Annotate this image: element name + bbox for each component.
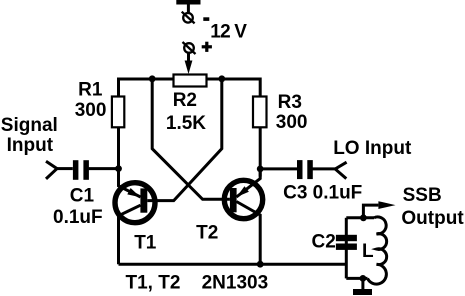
svg-text:300: 300 <box>75 100 107 121</box>
svg-text:C2: C2 <box>312 232 336 253</box>
node C1 junction <box>115 165 122 172</box>
LO input terminal <box>335 162 346 178</box>
node A (rail left junction) <box>149 75 156 82</box>
svg-text:Signal: Signal <box>1 115 58 136</box>
svg-text:C3 0.1uF: C3 0.1uF <box>283 182 362 203</box>
wire C3 node to capacitor <box>260 167 297 170</box>
inductor L <box>368 217 387 284</box>
wire terminal to C1 <box>57 167 73 170</box>
wire C3 to LO terminal <box>312 167 335 170</box>
connector J1 (minus terminal) <box>182 12 195 24</box>
wiper arrow into R2 <box>185 53 193 75</box>
transistor T2 <box>224 169 262 264</box>
potentiometer R2 <box>174 75 207 87</box>
svg-text:T1: T1 <box>134 232 157 253</box>
node tank bottom <box>360 275 367 282</box>
battery terminal bar (negative supply) <box>176 0 200 5</box>
node bottom rail junction <box>257 261 264 268</box>
wire R1 bottom to T1 emitter <box>119 127 141 197</box>
svg-text:2N1303: 2N1303 <box>202 272 269 293</box>
svg-text:R1: R1 <box>78 80 103 101</box>
svg-text:1.5K: 1.5K <box>166 113 206 134</box>
svg-text:T2: T2 <box>196 222 218 243</box>
cross-coupling wire from right rail node to T1 base <box>147 79 222 201</box>
connector J2 (plus terminal) <box>183 42 196 54</box>
svg-text:T1, T2: T1, T2 <box>126 272 181 293</box>
svg-text:Output: Output <box>401 208 464 229</box>
tank top wire <box>346 216 374 219</box>
SSB output arrow <box>363 201 395 218</box>
bottom rail wire <box>119 263 347 266</box>
svg-text:SSB: SSB <box>403 185 442 206</box>
label minus <box>203 17 209 21</box>
resistor R1 <box>112 97 124 128</box>
ground <box>353 278 372 295</box>
tank left branch wire <box>345 218 348 279</box>
svg-text:0.1uF: 0.1uF <box>53 207 103 228</box>
wire <box>187 3 190 13</box>
label plus <box>202 42 212 52</box>
signal input terminal <box>46 161 57 179</box>
wire R3 bottom to node <box>259 127 262 176</box>
resistor R3 <box>253 97 267 128</box>
svg-text:R3: R3 <box>278 92 302 113</box>
node B (rail right junction) <box>218 75 225 82</box>
svg-text:Input: Input <box>7 135 54 156</box>
svg-text:R2: R2 <box>173 90 197 111</box>
capacitor C3 <box>297 160 313 179</box>
cross-coupling wire from left rail node to T2 base <box>152 79 230 199</box>
node C3 junction <box>257 166 264 173</box>
tank bottom wire <box>346 277 367 280</box>
top rail wire <box>119 79 261 97</box>
capacitor C2 <box>336 235 357 250</box>
svg-text:300: 300 <box>276 112 308 133</box>
capacitor C1 <box>73 160 89 180</box>
wire C1 to node <box>89 167 119 170</box>
node tank top <box>360 214 367 221</box>
transistor T1 <box>115 183 155 265</box>
svg-text:LO Input: LO Input <box>333 138 412 159</box>
svg-text:12 V: 12 V <box>210 22 247 43</box>
svg-text:C1: C1 <box>70 185 95 206</box>
svg-text:L: L <box>362 241 374 262</box>
